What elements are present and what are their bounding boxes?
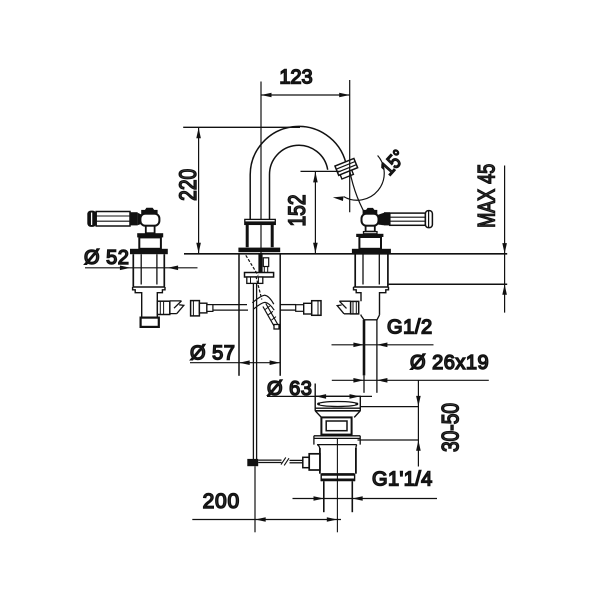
spout base flange bbox=[238, 248, 280, 253]
right hose pipe bbox=[280, 304, 296, 306]
body left wall bbox=[238, 254, 240, 376]
escutcheon flange (black) bbox=[352, 249, 391, 254]
locknut bbox=[321, 473, 354, 476]
side outlet nipple bbox=[157, 301, 170, 314]
lever end cap bbox=[87, 211, 96, 227]
diagonal lift rod bbox=[246, 255, 262, 299]
lever collar dark band bbox=[130, 212, 138, 225]
valve upper body bbox=[359, 237, 381, 249]
guide block under T-bar bbox=[247, 277, 263, 283]
counter top line bbox=[184, 253, 507, 255]
handle neck bbox=[146, 226, 155, 233]
spout centerline (123 left extension) bbox=[260, 82, 262, 254]
svg-text:Ø 57: Ø 57 bbox=[190, 343, 235, 365]
svg-text:30-50: 30-50 bbox=[436, 403, 464, 452]
svg-text:G1'1/4: G1'1/4 bbox=[372, 469, 433, 491]
lever cone bbox=[138, 213, 142, 225]
lever collar dark band bbox=[384, 212, 390, 225]
body right wall bbox=[279, 254, 281, 376]
lever barrel bbox=[390, 213, 426, 225]
svg-text:Ø 26x19: Ø 26x19 bbox=[410, 352, 489, 374]
lever cone bbox=[378, 213, 384, 226]
lower body and taper bbox=[361, 315, 380, 320]
drain flange bbox=[314, 384, 316, 411]
threaded tail G1/2 bbox=[363, 320, 366, 376]
spout outer curve bbox=[250, 126, 346, 219]
swivel reference line bbox=[350, 171, 369, 221]
aerator nozzle bbox=[335, 158, 359, 179]
rod break mark bbox=[281, 457, 289, 465]
right hose nut bbox=[296, 305, 304, 312]
ball joint bbox=[362, 214, 379, 226]
valve upper body bbox=[139, 237, 161, 248]
tailpipe G1'1/4 bbox=[323, 481, 325, 512]
pop-up rod (twin lines) bbox=[252, 283, 254, 459]
side inlet nipple bbox=[351, 301, 359, 314]
bonnet bbox=[356, 234, 383, 237]
waterway curves bbox=[252, 295, 273, 304]
small tube bbox=[263, 258, 268, 267]
stepped base bbox=[354, 287, 389, 315]
svg-text:220: 220 bbox=[174, 169, 202, 201]
ball joint bbox=[140, 214, 159, 226]
valve stem dark bar bbox=[258, 254, 262, 273]
overflow window bbox=[321, 417, 351, 434]
step flange bbox=[314, 436, 360, 450]
escutcheon cylinder bbox=[132, 254, 134, 287]
lever barrel bbox=[96, 212, 130, 227]
lever end cap bbox=[425, 211, 432, 228]
horizontal rod bbox=[258, 459, 281, 461]
stepped base bbox=[133, 287, 165, 318]
tailpiece bbox=[141, 318, 159, 327]
svg-text:G1/2: G1/2 bbox=[387, 317, 433, 339]
svg-text:MAX 45: MAX 45 bbox=[474, 164, 500, 228]
outlet channel hatch bbox=[263, 304, 278, 328]
drain centerline bbox=[336, 439, 338, 533]
left hose nut bbox=[191, 301, 200, 316]
counter bottom line bbox=[389, 283, 508, 285]
spout pipe body bbox=[246, 224, 249, 247]
top reference line bbox=[183, 126, 300, 128]
svg-text:15°: 15° bbox=[376, 145, 410, 179]
neck taper bbox=[315, 411, 360, 418]
valve body lower / elbow bbox=[156, 315, 158, 318]
channel foot bbox=[274, 325, 279, 330]
spout inner curve bbox=[269, 145, 327, 219]
svg-text:123: 123 bbox=[279, 67, 312, 89]
broken-away connector bbox=[170, 301, 184, 314]
broken-away connector bbox=[337, 301, 350, 314]
flange bottom bbox=[315, 407, 360, 409]
bonnet bbox=[137, 233, 163, 237]
plug lens bbox=[318, 402, 358, 407]
rod clevis (black) bbox=[247, 459, 258, 466]
svg-text:Ø 52: Ø 52 bbox=[84, 247, 129, 269]
T-bar bbox=[245, 273, 274, 278]
handle neck bbox=[366, 226, 375, 232]
svg-text:200: 200 bbox=[203, 490, 240, 513]
escutcheon cylinder bbox=[354, 254, 356, 287]
linkage clevis bbox=[303, 457, 309, 467]
escutcheon flange (black) bbox=[130, 249, 168, 254]
svg-text:152: 152 bbox=[283, 194, 311, 226]
left hose pipe bbox=[213, 304, 247, 306]
rod lower extension bbox=[254, 466, 256, 532]
drain body bbox=[319, 448, 321, 474]
spout pipe flange bbox=[245, 219, 275, 224]
